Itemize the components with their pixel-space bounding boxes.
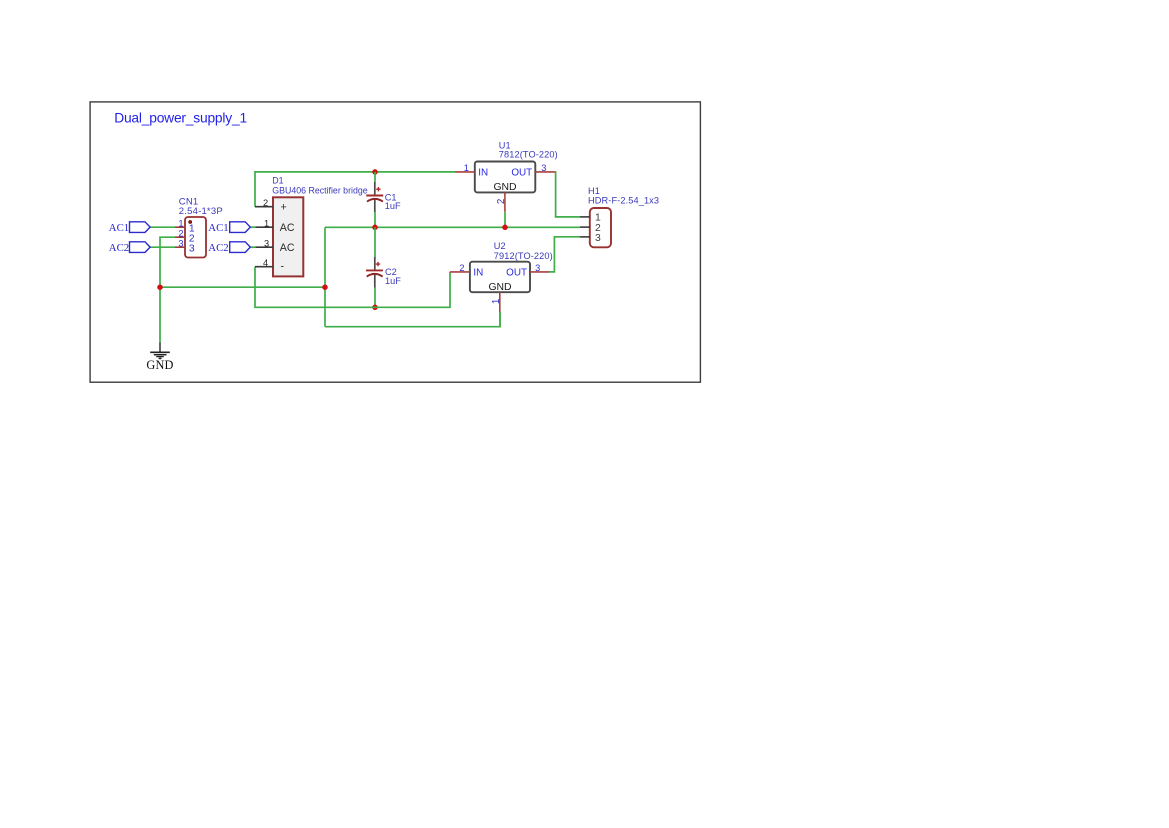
CN1 pin 3 xyxy=(175,246,185,248)
port AC1 right xyxy=(208,222,250,234)
svg-text:Dual_power_supply_1: Dual_power_supply_1 xyxy=(114,111,247,126)
svg-text:GND: GND xyxy=(493,182,516,193)
junction C1 top xyxy=(372,169,378,175)
wire U1 GND pin to rail xyxy=(504,212,506,228)
regulator U1 7812 xyxy=(455,141,558,212)
U2 pin 3 stub xyxy=(530,271,550,273)
wire AC1-left to CN1 pin1 xyxy=(150,226,175,228)
svg-text:U2: U2 xyxy=(494,241,506,251)
D1 pin 1 stub xyxy=(256,226,273,228)
wire GND bottom horizontal xyxy=(325,312,500,327)
C1 curved plate xyxy=(367,199,383,202)
svg-text:GBU406 Rectifier bridge: GBU406 Rectifier bridge xyxy=(272,186,367,196)
svg-text:1uF: 1uF xyxy=(385,276,401,286)
svg-text:2: 2 xyxy=(263,198,268,208)
svg-text:4: 4 xyxy=(263,258,268,268)
svg-text:1: 1 xyxy=(178,218,183,228)
CN1 pin 1 xyxy=(175,226,185,228)
H1 pin 3 stub xyxy=(580,236,590,238)
wire negative rail xyxy=(255,267,450,308)
H1 pin 1 stub xyxy=(580,216,590,218)
wire U2 OUT to H1 pin3 xyxy=(550,237,580,272)
wire C1 top lead green xyxy=(374,172,376,182)
D1 pin 4 stub xyxy=(255,266,273,268)
wire C2 bottom lead green xyxy=(374,287,376,307)
wire CN1 pin2 to GND rail xyxy=(160,237,175,342)
svg-text:2: 2 xyxy=(496,199,507,204)
wire GND mid vertical xyxy=(324,227,326,326)
junction at CN1 GND rail xyxy=(157,284,163,290)
wire C2 top lead green xyxy=(374,227,376,257)
port AC2 left xyxy=(109,242,150,254)
D1 pin 2 stub xyxy=(255,206,273,208)
regulator U2 7912 xyxy=(450,241,553,312)
svg-text:IN: IN xyxy=(478,167,488,178)
wire U1 OUT to H1 pin1 xyxy=(555,172,580,217)
D1 pin 3 stub xyxy=(256,246,273,248)
junction GND mid vertical xyxy=(322,284,328,290)
frame border xyxy=(90,102,700,382)
svg-text:7912(TO-220): 7912(TO-220) xyxy=(494,251,553,261)
rectifier D1 GBU406 xyxy=(255,176,368,277)
svg-text:OUT: OUT xyxy=(511,167,532,178)
U2 pin 2 stub xyxy=(450,271,470,273)
C1 plus sign xyxy=(376,187,380,191)
wire GND branch horizontal xyxy=(160,286,325,288)
svg-text:-: - xyxy=(281,261,285,273)
ground xyxy=(146,343,173,372)
svg-text:1uF: 1uF xyxy=(385,201,401,211)
svg-text:3: 3 xyxy=(595,233,601,244)
svg-text:3: 3 xyxy=(264,238,269,248)
wire positive top rail xyxy=(255,172,455,207)
svg-text:IN: IN xyxy=(473,268,483,279)
svg-text:OUT: OUT xyxy=(506,268,527,279)
C2 plus sign xyxy=(376,262,380,266)
wire C1 bottom lead green xyxy=(374,212,376,228)
svg-text:GND: GND xyxy=(146,358,173,372)
wire AC2-left to CN1 pin3 xyxy=(150,246,175,248)
svg-text:1: 1 xyxy=(491,299,502,304)
CN1 pin 2 xyxy=(175,236,185,238)
U1 pin 2 stub xyxy=(504,192,506,211)
H1 pin 2 stub xyxy=(580,226,590,228)
U1 pin 1 stub xyxy=(455,171,475,173)
svg-text:1: 1 xyxy=(464,163,469,173)
CN1 pin1 polarity dot xyxy=(188,220,192,224)
svg-text:3: 3 xyxy=(178,238,183,248)
wire D1 AC2 entry xyxy=(250,246,256,248)
svg-text:AC: AC xyxy=(280,242,295,254)
svg-text:AC2: AC2 xyxy=(109,242,129,254)
svg-text:3: 3 xyxy=(541,163,546,173)
C1 top plate xyxy=(366,195,383,197)
svg-text:2.54-1*3P: 2.54-1*3P xyxy=(179,206,223,217)
port AC1 left xyxy=(109,222,150,234)
connector CN1 xyxy=(175,196,223,257)
port AC2 right xyxy=(208,242,250,254)
junction C2 bottom xyxy=(372,305,378,311)
C2 curved plate xyxy=(367,274,383,277)
capacitor C2 xyxy=(366,257,401,287)
C2 top plate xyxy=(366,269,383,271)
svg-text:D1: D1 xyxy=(272,176,283,186)
U1 pin 3 stub xyxy=(535,171,555,173)
svg-text:7812(TO-220): 7812(TO-220) xyxy=(499,150,558,160)
svg-text:AC2: AC2 xyxy=(208,242,228,254)
svg-text:2: 2 xyxy=(178,228,183,238)
svg-text:AC: AC xyxy=(280,222,295,234)
capacitor C1 xyxy=(366,182,401,212)
svg-text:+: + xyxy=(281,202,287,214)
junction U1 GND xyxy=(502,225,508,231)
svg-text:1: 1 xyxy=(264,218,269,228)
U2 pin 1 stub xyxy=(499,292,501,312)
svg-text:3: 3 xyxy=(189,243,195,254)
header H1 xyxy=(580,186,659,247)
svg-text:2: 2 xyxy=(459,263,464,273)
svg-text:HDR-F-2.54_1x3: HDR-F-2.54_1x3 xyxy=(588,195,659,205)
svg-text:AC1: AC1 xyxy=(109,222,129,234)
wire U2 GND pin down xyxy=(499,312,501,327)
svg-text:AC1: AC1 xyxy=(208,222,228,234)
svg-text:3: 3 xyxy=(535,263,540,273)
svg-text:GND: GND xyxy=(488,282,511,293)
junction C1 bottom on GND rail xyxy=(372,225,378,231)
wire D1 AC1 entry xyxy=(250,226,256,228)
wire GND mid horizontal to H1 pin2 xyxy=(325,226,580,228)
